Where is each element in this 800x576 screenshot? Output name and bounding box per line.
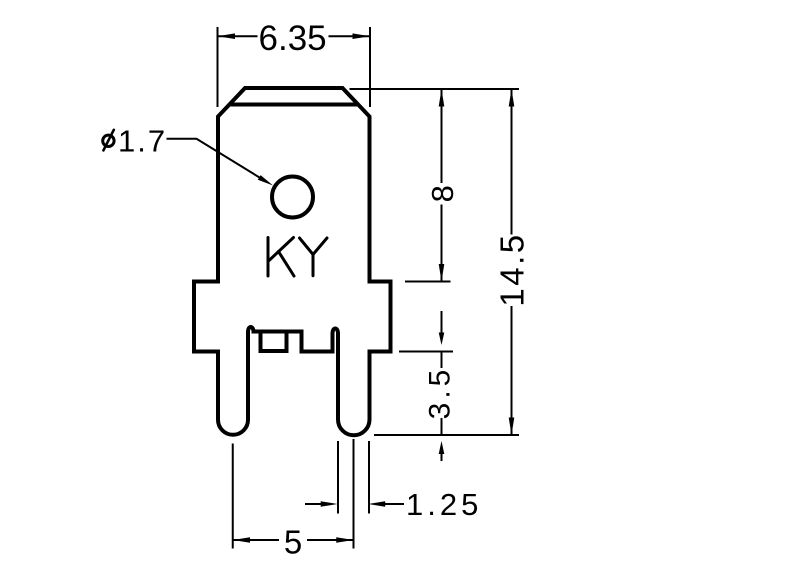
hole diameter label diameter symbol — [103, 135, 114, 146]
extension line right leg left edge — [337, 441, 339, 514]
tab tip bevel line — [230, 103, 357, 107]
svg-text:5: 5 — [284, 524, 302, 561]
dimension 6.35 line — [218, 35, 371, 37]
svg-text:1.7: 1.7 — [118, 124, 167, 159]
extension line right leg right edge — [368, 441, 370, 514]
hole — [272, 177, 313, 218]
extension line right of 6.35 — [369, 27, 371, 107]
svg-text:3.5: 3.5 — [424, 366, 457, 420]
svg-text:8: 8 — [425, 185, 460, 202]
terminal body outline — [194, 88, 391, 435]
extension line shoulder bottom — [399, 351, 453, 353]
extension line left of 6.35 — [217, 27, 219, 107]
leader arrowhead — [258, 175, 273, 185]
extension line left leg center — [232, 444, 234, 549]
extension line shoulder top — [405, 281, 451, 283]
dimension 5 line — [233, 539, 354, 541]
dimension 3.5 line — [441, 311, 443, 461]
extension line top (y=89) — [350, 88, 520, 90]
extension line leg bottom — [374, 434, 519, 436]
solder stop tab box — [261, 332, 287, 351]
dimension 8 line — [441, 89, 443, 282]
svg-text:14.5: 14.5 — [494, 232, 531, 306]
KY marking — [268, 238, 327, 277]
dimension 1.25 line — [305, 503, 404, 505]
svg-text:6.35: 6.35 — [259, 19, 327, 58]
extension line right leg center — [353, 439, 355, 549]
dimension 14.5 line — [511, 89, 513, 435]
leader line to hole — [167, 139, 260, 178]
svg-text:1.25: 1.25 — [406, 487, 482, 522]
